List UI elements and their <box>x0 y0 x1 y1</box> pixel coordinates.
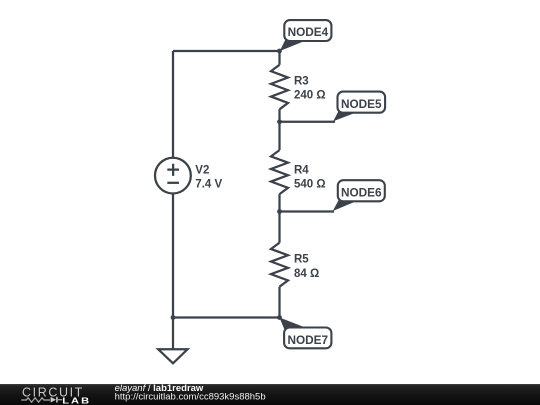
CircuitLab logo resistor squiggle <box>21 398 50 403</box>
junction node5 <box>277 119 282 124</box>
junction node6 <box>277 209 282 214</box>
wire R4 to N6 <box>278 194 280 243</box>
svg-text:540 Ω: 540 Ω <box>294 179 326 191</box>
svg-text:V2: V2 <box>195 164 209 176</box>
svg-text:R5: R5 <box>294 254 309 266</box>
junction ground <box>171 315 176 320</box>
CircuitLab logo diode <box>51 397 56 403</box>
svg-text:NODE5: NODE5 <box>341 97 382 111</box>
ground <box>158 349 187 363</box>
wire left vertical upper <box>172 51 174 158</box>
svg-text:NODE4: NODE4 <box>288 25 329 39</box>
wire top horizontal <box>173 50 280 52</box>
svg-text:LAB: LAB <box>62 397 91 405</box>
wire bottom horizontal <box>173 316 280 318</box>
wire right vertical segment N4 to R3 <box>278 51 280 65</box>
resistor R4 <box>271 150 288 194</box>
wire left vertical lower <box>172 194 174 318</box>
NODE5 tail <box>333 112 358 122</box>
svg-text:R3: R3 <box>294 76 309 88</box>
svg-text:NODE7: NODE7 <box>287 333 328 347</box>
svg-text:NODE6: NODE6 <box>341 185 382 199</box>
node NODE4 callout box <box>284 20 331 41</box>
V2 minus sign <box>167 182 179 184</box>
svg-text:http://circuitlab.com/cc893k9s: http://circuitlab.com/cc893k9s88h5b <box>115 392 266 403</box>
junction node7 <box>277 315 282 320</box>
wire N6 stub <box>280 210 335 212</box>
node NODE5 callout box <box>338 92 386 113</box>
resistor R5 <box>271 243 288 287</box>
svg-text:7.4 V: 7.4 V <box>195 178 222 190</box>
node NODE6 callout box <box>338 180 385 201</box>
NODE7 tail <box>280 318 312 331</box>
wire R3 to N5 <box>278 109 280 150</box>
footer bar <box>0 384 540 405</box>
wire N5 stub <box>280 121 336 123</box>
wire R5 to bottom <box>278 287 280 318</box>
svg-text:84 Ω: 84 Ω <box>294 268 319 280</box>
NODE4 tail <box>280 40 305 51</box>
V2 plus sign <box>167 164 179 176</box>
svg-text:240 Ω: 240 Ω <box>294 90 326 102</box>
resistor R3 <box>271 65 288 110</box>
svg-text:R4: R4 <box>294 164 309 176</box>
voltage source V2 circle <box>155 158 191 194</box>
junction node4 <box>277 49 282 54</box>
NODE6 tail <box>333 200 358 211</box>
node NODE7 callout box <box>284 328 331 349</box>
ground stub wire <box>172 318 174 350</box>
